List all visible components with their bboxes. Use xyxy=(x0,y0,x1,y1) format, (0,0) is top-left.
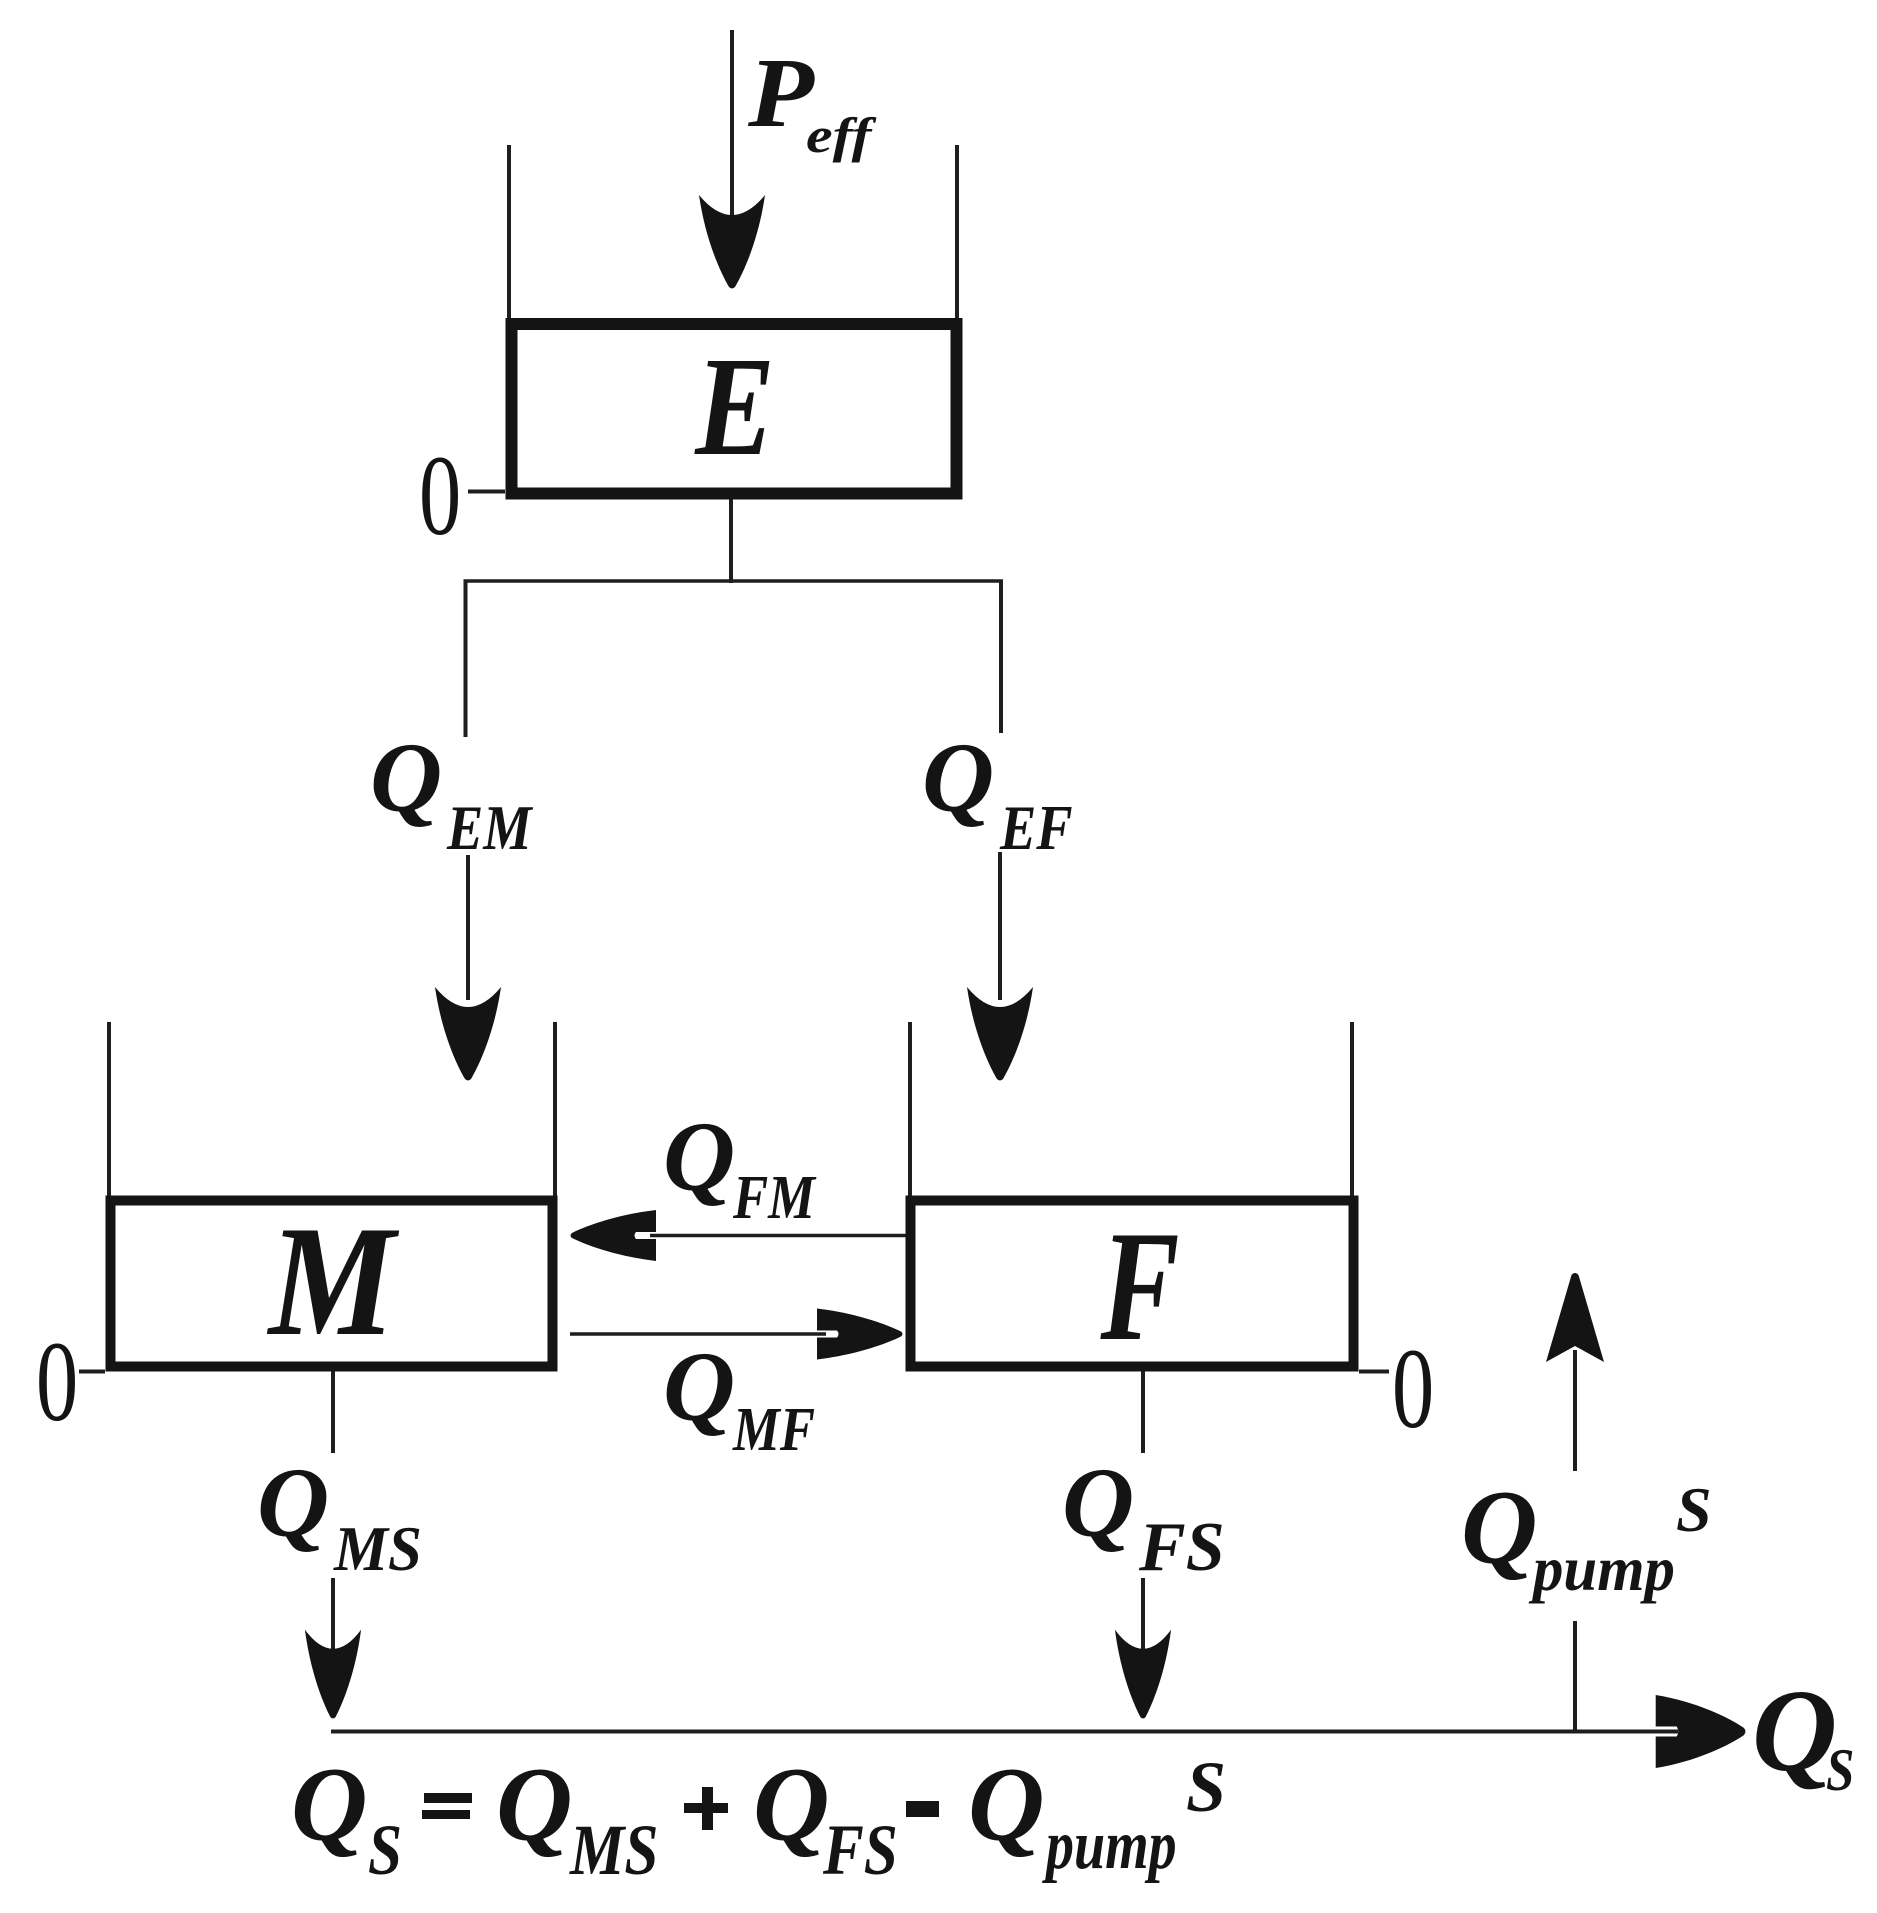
svg-text:FS: FS xyxy=(822,1810,898,1890)
svg-text:Q: Q xyxy=(753,1746,830,1863)
svg-text:Q: Q xyxy=(291,1746,368,1863)
svg-text:Q: Q xyxy=(1062,1447,1134,1558)
svg-text:EF: EF xyxy=(999,792,1072,863)
svg-text:S: S xyxy=(1826,1737,1854,1804)
svg-text:0: 0 xyxy=(419,433,461,559)
svg-text:F: F xyxy=(1100,1200,1180,1374)
svg-text:MF: MF xyxy=(732,1396,815,1464)
svg-text:Q: Q xyxy=(663,1101,735,1212)
svg-text:pump: pump xyxy=(1528,1533,1675,1605)
svg-text:Q: Q xyxy=(1461,1469,1538,1586)
svg-text:Q: Q xyxy=(370,722,442,833)
svg-text:EM: EM xyxy=(446,792,534,863)
svg-text:Q: Q xyxy=(922,722,994,833)
svg-text:Q: Q xyxy=(663,1331,735,1442)
svg-text:M: M xyxy=(267,1193,399,1369)
svg-text:eff: eff xyxy=(806,108,877,163)
svg-text:Q: Q xyxy=(968,1746,1045,1863)
svg-text:S: S xyxy=(1676,1474,1712,1545)
svg-text:FM: FM xyxy=(732,1164,817,1232)
svg-text:Q: Q xyxy=(257,1447,329,1558)
svg-text:FS: FS xyxy=(1138,1509,1225,1586)
svg-text:E: E xyxy=(694,328,774,485)
svg-text:Q: Q xyxy=(1752,1665,1837,1796)
svg-text:0: 0 xyxy=(1392,1326,1434,1452)
svg-text:S: S xyxy=(368,1810,402,1890)
svg-text:MS: MS xyxy=(333,1513,422,1585)
svg-text:MS: MS xyxy=(569,1810,658,1890)
svg-text:0: 0 xyxy=(36,1319,78,1445)
svg-text:pump: pump xyxy=(1042,1806,1177,1883)
svg-text:Q: Q xyxy=(496,1746,573,1863)
svg-text:S: S xyxy=(1186,1747,1226,1827)
